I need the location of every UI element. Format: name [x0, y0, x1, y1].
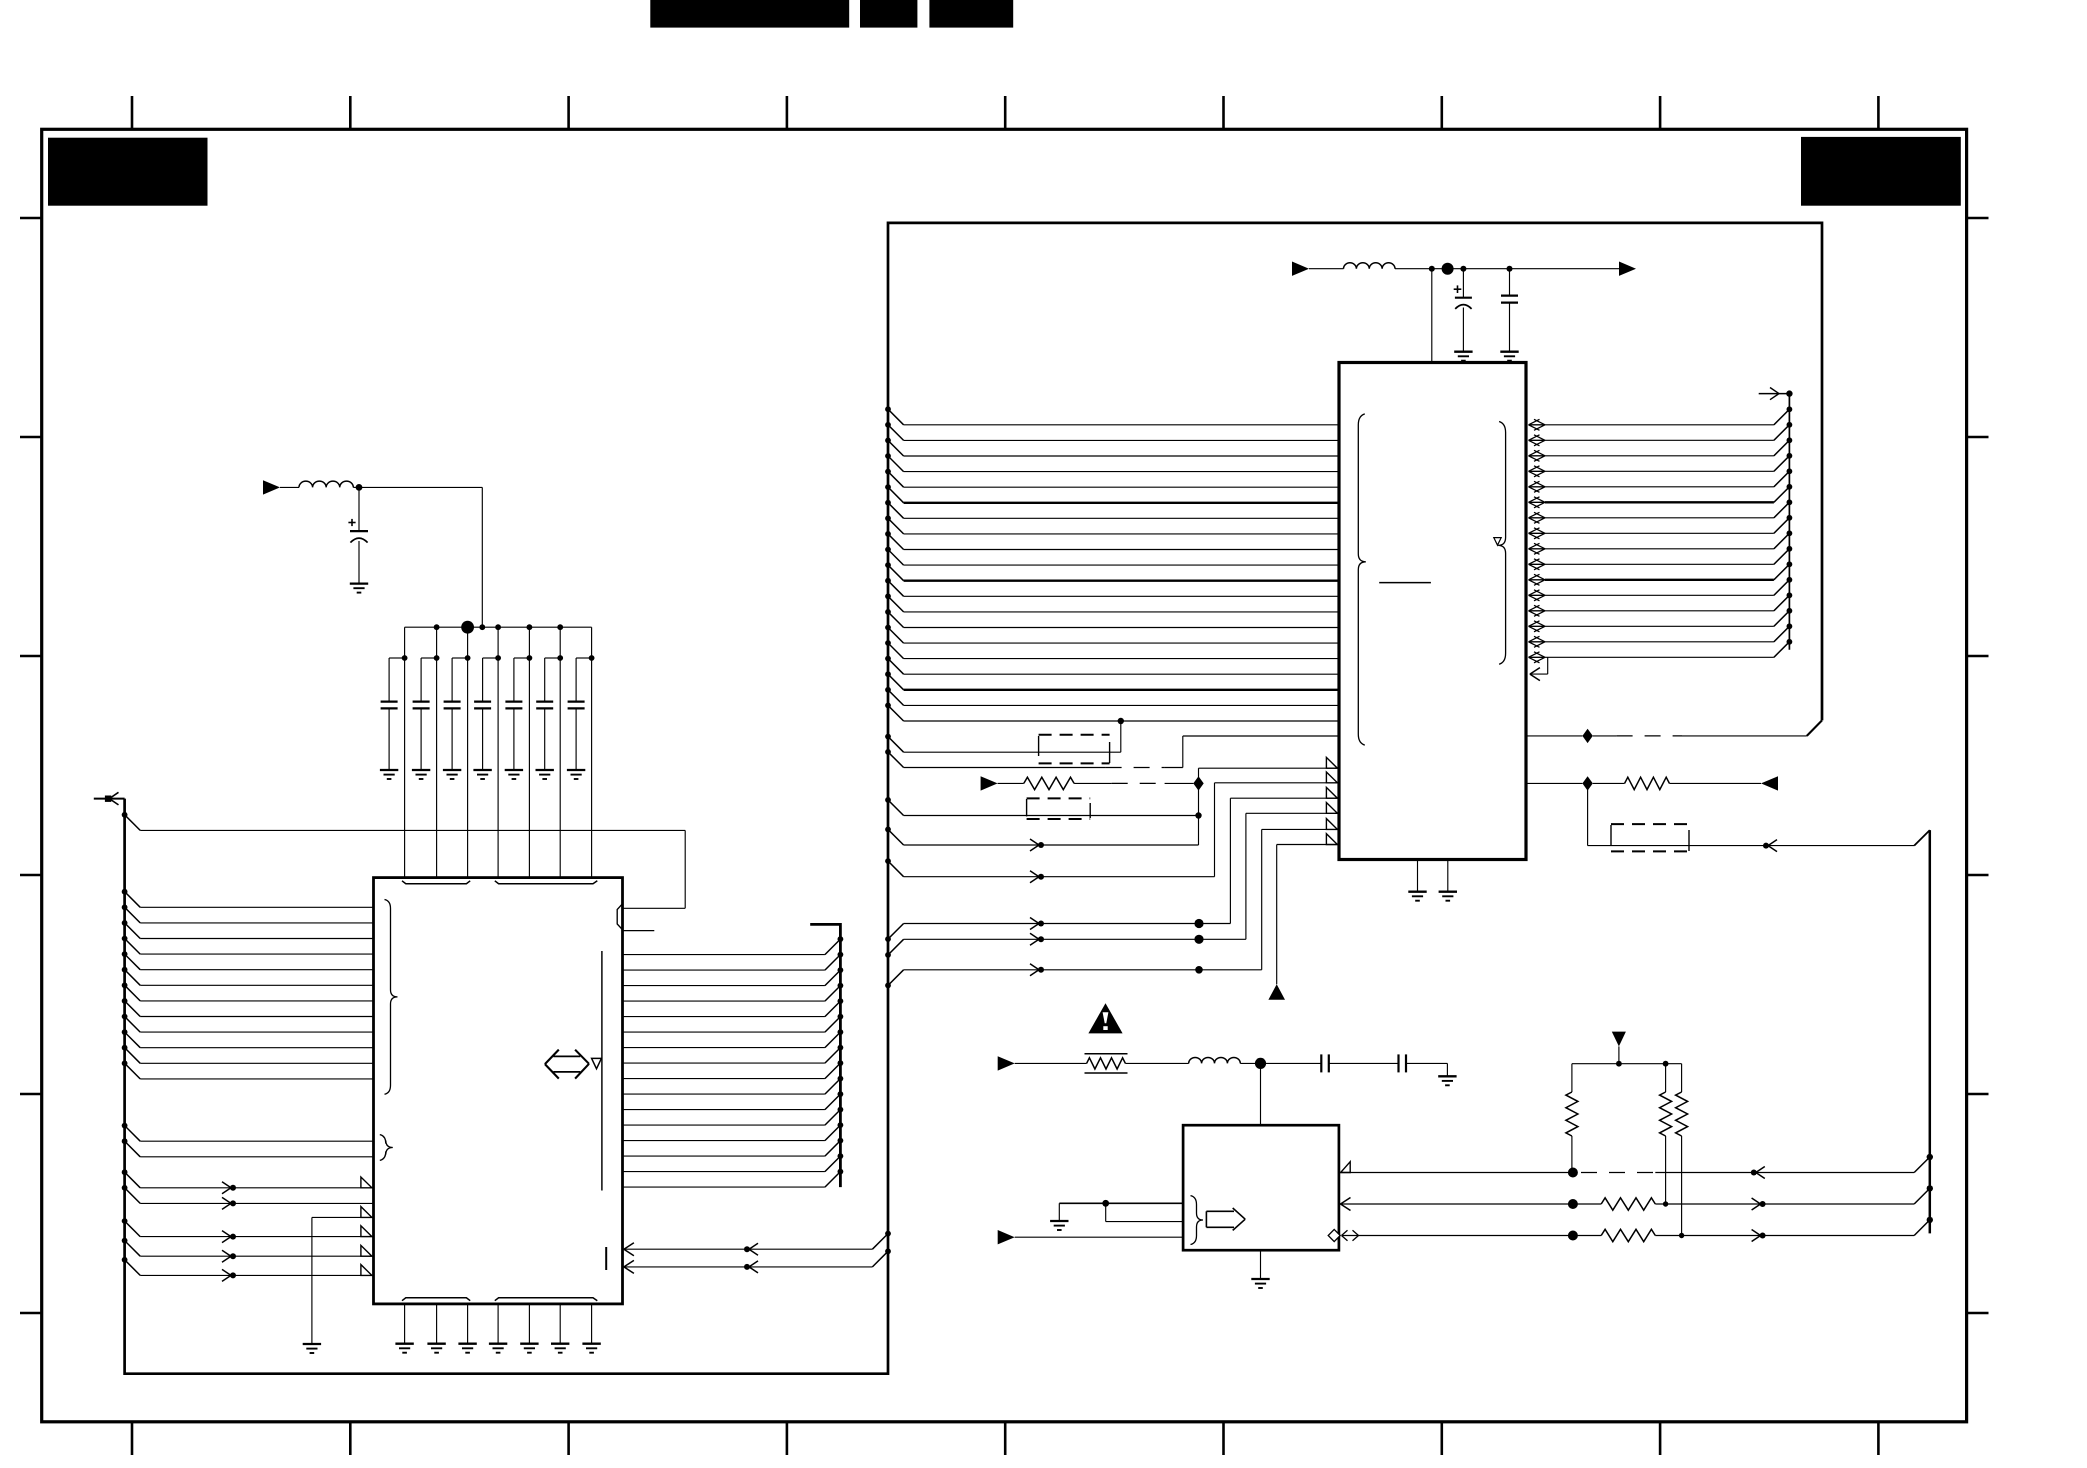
frame tick marks: [131, 96, 134, 129]
node: [1460, 266, 1466, 272]
node: [838, 1060, 844, 1066]
wire U1 right data row 5: [623, 1016, 825, 1018]
ground: [1050, 1220, 1068, 1222]
wire: [1329, 1062, 1399, 1064]
ground: [536, 769, 554, 771]
node: [1787, 530, 1793, 536]
node big junction on rail: [461, 621, 474, 634]
node: [838, 1029, 844, 1035]
wire U1 left pin pair row 2: [122, 1138, 128, 1144]
wire cap stub 3: [452, 657, 468, 659]
wire row A: [885, 827, 891, 833]
node: [838, 1138, 844, 1144]
wire U2 right data row 7: [1529, 517, 1546, 519]
warning triangle symbol: [1088, 1003, 1122, 1033]
wire: [1309, 268, 1344, 270]
IC U1 top pin group bracket 2: [495, 881, 598, 884]
wire: [1618, 1046, 1620, 1063]
capacitor C10: [1509, 269, 1511, 296]
node: [1927, 1185, 1933, 1191]
node: [838, 1091, 844, 1097]
open pin arrow: [361, 1177, 372, 1188]
wire U1 ground pin 4: [497, 1304, 499, 1344]
IC U1 inner corner bracket: [617, 903, 623, 930]
node: [1787, 577, 1793, 583]
wire U2 bus row 19: [885, 687, 891, 693]
node: [1787, 437, 1793, 443]
wire supply leg 2: [436, 627, 438, 877]
node: [1927, 1217, 1933, 1223]
IC U1 inner vertical line: [601, 951, 603, 1191]
ground: [567, 769, 585, 771]
wire U2 bus row 2: [885, 422, 891, 428]
capacitor C2: [388, 658, 390, 702]
node: [1507, 266, 1513, 272]
IC U1 inner small brace: [380, 1135, 393, 1161]
wire U2 pin row to option diamond: [1526, 735, 1582, 737]
ground: [303, 1343, 321, 1345]
wire U3 row R1 (data): [1341, 1161, 1352, 1163]
wire U1 ground pin 2: [436, 1304, 438, 1344]
node: [838, 1169, 844, 1175]
open pin arrow: [361, 1265, 372, 1276]
diamond junction: [1582, 729, 1592, 743]
wire row B: [885, 858, 891, 864]
ground: [473, 769, 491, 771]
port arrow P7 (input): [998, 1230, 1015, 1244]
wire U1 left pin row 2: [122, 904, 128, 910]
wire control net 4: [1245, 813, 1247, 939]
component option box (dashed): [1027, 797, 1091, 799]
wire row E: [885, 983, 891, 989]
flow arrow: [222, 1182, 231, 1188]
node: [1195, 966, 1203, 974]
ground: [1439, 891, 1457, 893]
wire supply leg 4: [497, 627, 499, 877]
ground: [1408, 891, 1426, 893]
ground: [505, 769, 523, 771]
flow arrow: [1030, 839, 1039, 845]
wire: [1669, 782, 1761, 784]
node leg 7 tap: [589, 655, 595, 661]
wire U2 supply pin: [1431, 269, 1433, 363]
wire U1 right data row 16: [623, 1186, 825, 1188]
node: [1787, 406, 1793, 412]
wire: [280, 486, 299, 488]
wire U1 lower control row 3: [122, 1257, 128, 1263]
wire U1 left pin row 3: [122, 920, 128, 926]
wire U2 right data row 6: [1529, 501, 1546, 503]
IC U3 bottom ground pin: [1260, 1250, 1262, 1279]
port arrow P3 (supply out): [1619, 262, 1636, 276]
bus corner 45-degree entry: [1807, 720, 1822, 736]
resistor R5: [1665, 1064, 1667, 1092]
node big: [1442, 263, 1454, 275]
wire U1 return row 2: [885, 1248, 891, 1254]
node: [1787, 468, 1793, 474]
inductor L3: [1189, 1057, 1241, 1063]
IC U1 body: [374, 878, 623, 1304]
port arrow P4 (signal in): [981, 776, 998, 790]
IC U2 inner bus brace (right): [1498, 422, 1506, 665]
redacted title block top right-of-center: [929, 0, 1013, 28]
diamond junction: [1193, 776, 1203, 790]
wire U3 row R3 (data2): [1328, 1229, 1340, 1241]
wire: [1655, 1203, 1914, 1205]
wire U1 ground pin 3: [467, 1304, 469, 1344]
wire dashed-option row: [885, 749, 891, 755]
wire U2 bus row 15: [885, 625, 891, 631]
flow arrow: [749, 1261, 758, 1267]
ground: [443, 769, 461, 771]
IC U3 inner brace: [1191, 1196, 1204, 1245]
wire U2 bus row 17: [885, 656, 891, 662]
wire U2 bus row 11: [885, 562, 891, 568]
node: [1787, 546, 1793, 552]
node jumper junction on row 20: [1118, 718, 1124, 724]
node: [1195, 812, 1201, 818]
wire U1 right data row 15: [623, 1171, 825, 1173]
node: [838, 952, 844, 958]
capacitor C9 (electrolytic): [1462, 269, 1464, 298]
bus right-edge vertical: [1914, 830, 1930, 846]
wire U2 ground pin 2: [1447, 860, 1449, 892]
wire U2 bus row 16: [885, 640, 891, 646]
capacitor C8: [575, 658, 577, 702]
redacted grid label box top-left: [48, 138, 208, 206]
flow arrow: [1030, 871, 1039, 877]
node leg 1 tap: [402, 655, 408, 661]
capacitor C5: [482, 658, 484, 702]
wire cap stub 5: [514, 657, 530, 659]
flow arrow: [222, 1197, 231, 1203]
wire U1 left pin row 9: [122, 1014, 128, 1020]
node rail junctions: [434, 624, 440, 630]
ground: [582, 1343, 600, 1345]
IC U3 block arrow symbol: [1206, 1210, 1234, 1212]
IC U1 top pin group bracket 1: [402, 881, 470, 884]
flow arrow: [222, 1269, 231, 1275]
node: [838, 1045, 844, 1051]
wire row 17 jog: [1530, 673, 1548, 675]
wire U1 right data row 3: [623, 985, 825, 987]
node: [1787, 453, 1793, 459]
node: [1616, 1061, 1622, 1067]
node leg 4 tap: [495, 655, 501, 661]
flow arrow: [1752, 1230, 1761, 1236]
wire U1 lower control row 1: [122, 1218, 128, 1224]
wire U1 right data row 4: [623, 1000, 825, 1002]
wire U2 bus row 6: [885, 484, 891, 490]
node: [838, 983, 844, 989]
IC U1 bidirectional bus symbol: [545, 1050, 559, 1065]
wire U1 right data row 9: [623, 1078, 825, 1080]
diamond junction: [1582, 776, 1592, 790]
node: [1787, 484, 1793, 490]
open pin arrow: [1326, 772, 1337, 783]
IC U1 inverted-triangle marker: [592, 1058, 602, 1068]
ground: [489, 1343, 507, 1345]
resistor R3 (fusible): [1087, 1058, 1126, 1069]
ground: [350, 582, 368, 584]
wire U2 bus row 18: [885, 671, 891, 677]
node emphasized: [1194, 919, 1203, 928]
capacitor C4: [451, 658, 453, 702]
open pin arrow: [1326, 803, 1337, 814]
wire U2 right data row 2: [1529, 439, 1546, 441]
node: [1679, 1233, 1684, 1238]
wire U2 right data row 16: [1529, 656, 1546, 658]
wire U3 row R2 (clock): [1341, 1198, 1351, 1205]
wire U1 left pin row 4: [122, 936, 128, 942]
wire U1 right data row 6: [623, 1031, 825, 1033]
wire: [1015, 1062, 1087, 1064]
wire U1 right data row 13: [623, 1140, 825, 1142]
wire U2 bus row 1: [885, 406, 891, 412]
pin arrow: [624, 1260, 634, 1267]
capacitor C7: [544, 658, 546, 702]
wire U1 lower control row 2: [122, 1238, 128, 1244]
node: [838, 1107, 844, 1113]
pin arrow: [1530, 668, 1540, 675]
open pin arrow: [361, 1207, 372, 1218]
IC U1 bottom pin group bracket 2: [495, 1298, 598, 1301]
wire U2 bus row 7: [885, 500, 891, 506]
ground: [412, 769, 430, 771]
flow arrow: [1030, 918, 1039, 924]
wire U2 right data row 15: [1529, 641, 1546, 643]
ground: [458, 1343, 476, 1345]
component option box (dashed) around jumper: [1039, 734, 1110, 736]
wire supply leg 7: [591, 627, 593, 877]
bus U1 data collector: [810, 924, 840, 1187]
IC U2 body: [1339, 363, 1526, 860]
node: [1102, 1200, 1109, 1207]
node: [838, 998, 844, 1004]
node J1: [356, 484, 363, 491]
IC U3 body: [1183, 1125, 1339, 1250]
inductor L2: [1344, 263, 1396, 269]
wire: [1261, 1062, 1322, 1064]
flow arrow: [1752, 1198, 1761, 1204]
wire row D: [885, 952, 891, 958]
ground: [395, 1343, 413, 1345]
bus main route (left vertical / bottom / right vertical / top): [125, 223, 1822, 1374]
flow arrow: [1756, 1167, 1765, 1173]
node: [838, 967, 844, 973]
node emphasized: [1568, 1199, 1578, 1209]
wire row C: [885, 936, 891, 942]
open pin arrow: [361, 1226, 372, 1237]
flow arrow: [1030, 933, 1039, 939]
wire U2 bus row 4: [885, 453, 891, 459]
IC U2 inverted-triangle marker: [1494, 538, 1501, 546]
wire U2 ground pin 1: [1417, 860, 1419, 892]
node emphasized: [1568, 1231, 1578, 1241]
wire control net 2: [1214, 783, 1216, 877]
wire dashed option segment: [1593, 735, 1617, 737]
bus U2 right collector: [1788, 394, 1790, 650]
node: [1787, 515, 1793, 521]
wire jumper link row: [885, 734, 891, 740]
wire U2 bus row 13: [885, 593, 891, 599]
wire U2 right data row 11: [1529, 579, 1546, 581]
wire U2 right data row 5: [1529, 486, 1546, 488]
port arrow P6 (input): [998, 1056, 1015, 1070]
ground: [380, 769, 398, 771]
flow arrow: [1768, 840, 1777, 846]
resistor R6: [1681, 1064, 1683, 1092]
node: [1787, 499, 1793, 505]
redacted title block top small: [860, 0, 917, 28]
wire U2 right data row 4: [1529, 470, 1546, 472]
wire U1 right data row 11: [623, 1109, 825, 1111]
wire U1 right data row 14: [623, 1155, 825, 1157]
node emphasized: [1194, 935, 1203, 944]
ground: [1251, 1278, 1269, 1280]
wire: [998, 782, 1024, 784]
wire: [1074, 782, 1112, 784]
wire U2 bus row 8: [885, 515, 891, 521]
wire U1 return row 1: [885, 1231, 891, 1237]
flow arrow: [222, 1231, 231, 1237]
wire U3 pin L1 with ground: [1059, 1202, 1183, 1204]
wire U1 grounded pin row: [312, 1216, 374, 1218]
wire U2 bus row 5: [885, 469, 891, 475]
node: [838, 1076, 844, 1082]
wire cap stub 6: [545, 657, 561, 659]
open pin arrow: [1326, 834, 1337, 845]
wire: [359, 486, 482, 488]
wire U2 bus row 3: [885, 438, 891, 444]
wire U1 left pin row 8: [122, 998, 128, 1004]
capacitor C3: [420, 658, 422, 702]
wire U2 right data row 12: [1529, 594, 1546, 596]
wire U2 right data row 13: [1529, 610, 1546, 612]
wire U1 right data row 1: [623, 954, 825, 956]
wire control net 3: [1229, 798, 1231, 923]
node: [1787, 592, 1793, 598]
wire U1 left pin row 7: [122, 982, 128, 988]
wire pull-up rail: [1572, 1063, 1682, 1065]
wire control net 1 (diamond branch): [1198, 768, 1200, 845]
wire supply leg 3: [467, 627, 469, 877]
wire dashed segment: [1581, 1172, 1655, 1174]
wire U3 pin L2: [1105, 1203, 1107, 1221]
wire supply leg 1: [404, 627, 406, 877]
wire U1 control row 1: [122, 1169, 128, 1175]
capacitor C1 (electrolytic): [358, 487, 360, 531]
node leg 6 tap: [557, 655, 563, 661]
ground: [1438, 1075, 1456, 1077]
open pin arrow: [1326, 819, 1337, 830]
node: [1787, 639, 1793, 645]
wire supply rail: [1395, 268, 1620, 270]
redacted grid label box top-right: [1801, 137, 1961, 206]
wire U1 ground pin 6: [559, 1304, 561, 1344]
resistor R7 (series): [1601, 1198, 1655, 1210]
wire cap stub 7: [576, 657, 592, 659]
wire U1 left pin row 10: [122, 1029, 128, 1035]
node: [1663, 1061, 1669, 1067]
node: [1787, 561, 1793, 567]
capacitor C11 (series): [1320, 1054, 1322, 1072]
wire control net 5: [1261, 829, 1263, 969]
wire U2 right data row 1: [1529, 424, 1546, 426]
wire U2 bus row 10: [885, 547, 891, 553]
wire U2 pin row: [1526, 782, 1582, 784]
wire: [1125, 1062, 1188, 1064]
IC U2 inner bus brace (left): [1358, 414, 1366, 745]
wire: [1655, 1235, 1914, 1237]
supply marker triangle (down): [1612, 1032, 1626, 1047]
node: [1787, 608, 1793, 614]
IC U1 inner tick: [605, 1247, 607, 1270]
wire: [1593, 782, 1625, 784]
node leg 2 tap: [434, 655, 440, 661]
wire cap stub 1: [389, 657, 405, 659]
resistor R2: [1625, 777, 1670, 789]
bus continuation arrow: [1759, 393, 1790, 395]
wire U2 bus row 9: [885, 531, 891, 537]
open pin arrow: [361, 1245, 372, 1256]
node: [838, 1014, 844, 1020]
node: [1663, 1201, 1668, 1206]
node: [1429, 266, 1435, 272]
ground: [427, 1343, 445, 1345]
component option box (dashed): [1611, 823, 1689, 825]
wire: [353, 486, 359, 488]
wire U1 ground pin 5: [528, 1304, 530, 1344]
pin arrow: [624, 1243, 634, 1250]
wire U1 left pin row 11: [122, 1045, 128, 1051]
wire U1 left pin row 1: [122, 889, 128, 895]
IC U2 label line: [1379, 582, 1431, 584]
wire U1 right stub: [623, 930, 655, 932]
node: [1787, 422, 1793, 428]
bus entry arrow (top-left): [94, 798, 125, 800]
wire U1 left pin row 5: [122, 951, 128, 957]
IC U1 inner bus brace: [385, 900, 398, 1095]
node: [838, 1122, 844, 1128]
port arrow P2 (supply in, right section): [1292, 262, 1309, 276]
wire U2 right data row 10: [1529, 563, 1546, 565]
wire supply leg 5: [528, 627, 530, 877]
capacitor C6: [513, 658, 515, 702]
wire cap stub 4: [483, 657, 499, 659]
wire U1 right data row 7: [623, 1047, 825, 1049]
wire U1 upper-right feedback (to bus): [122, 812, 128, 818]
node: [1255, 1058, 1266, 1069]
ground: [1454, 351, 1472, 353]
flow arrow: [222, 1250, 231, 1256]
wire U2 bus row 14: [885, 609, 891, 615]
wire U1 left pin row 6: [122, 967, 128, 973]
wire U2 right data row 8: [1529, 532, 1546, 534]
wire U1 ground pin 1: [404, 1304, 406, 1344]
wire U2 right data row 3: [1529, 455, 1546, 457]
wire U2 right data row 14: [1529, 625, 1546, 627]
wire control net 6 (to supply marker): [1276, 845, 1278, 985]
open pin arrow: [1326, 757, 1337, 768]
wire U3 pin L3: [1015, 1236, 1183, 1238]
ground: [1500, 351, 1518, 353]
node: [838, 1153, 844, 1159]
supply marker triangle: [1268, 984, 1285, 1000]
port arrow P5 (signal out, pointing left): [1761, 776, 1778, 790]
node leg 3 tap: [465, 655, 471, 661]
ground: [520, 1343, 538, 1345]
